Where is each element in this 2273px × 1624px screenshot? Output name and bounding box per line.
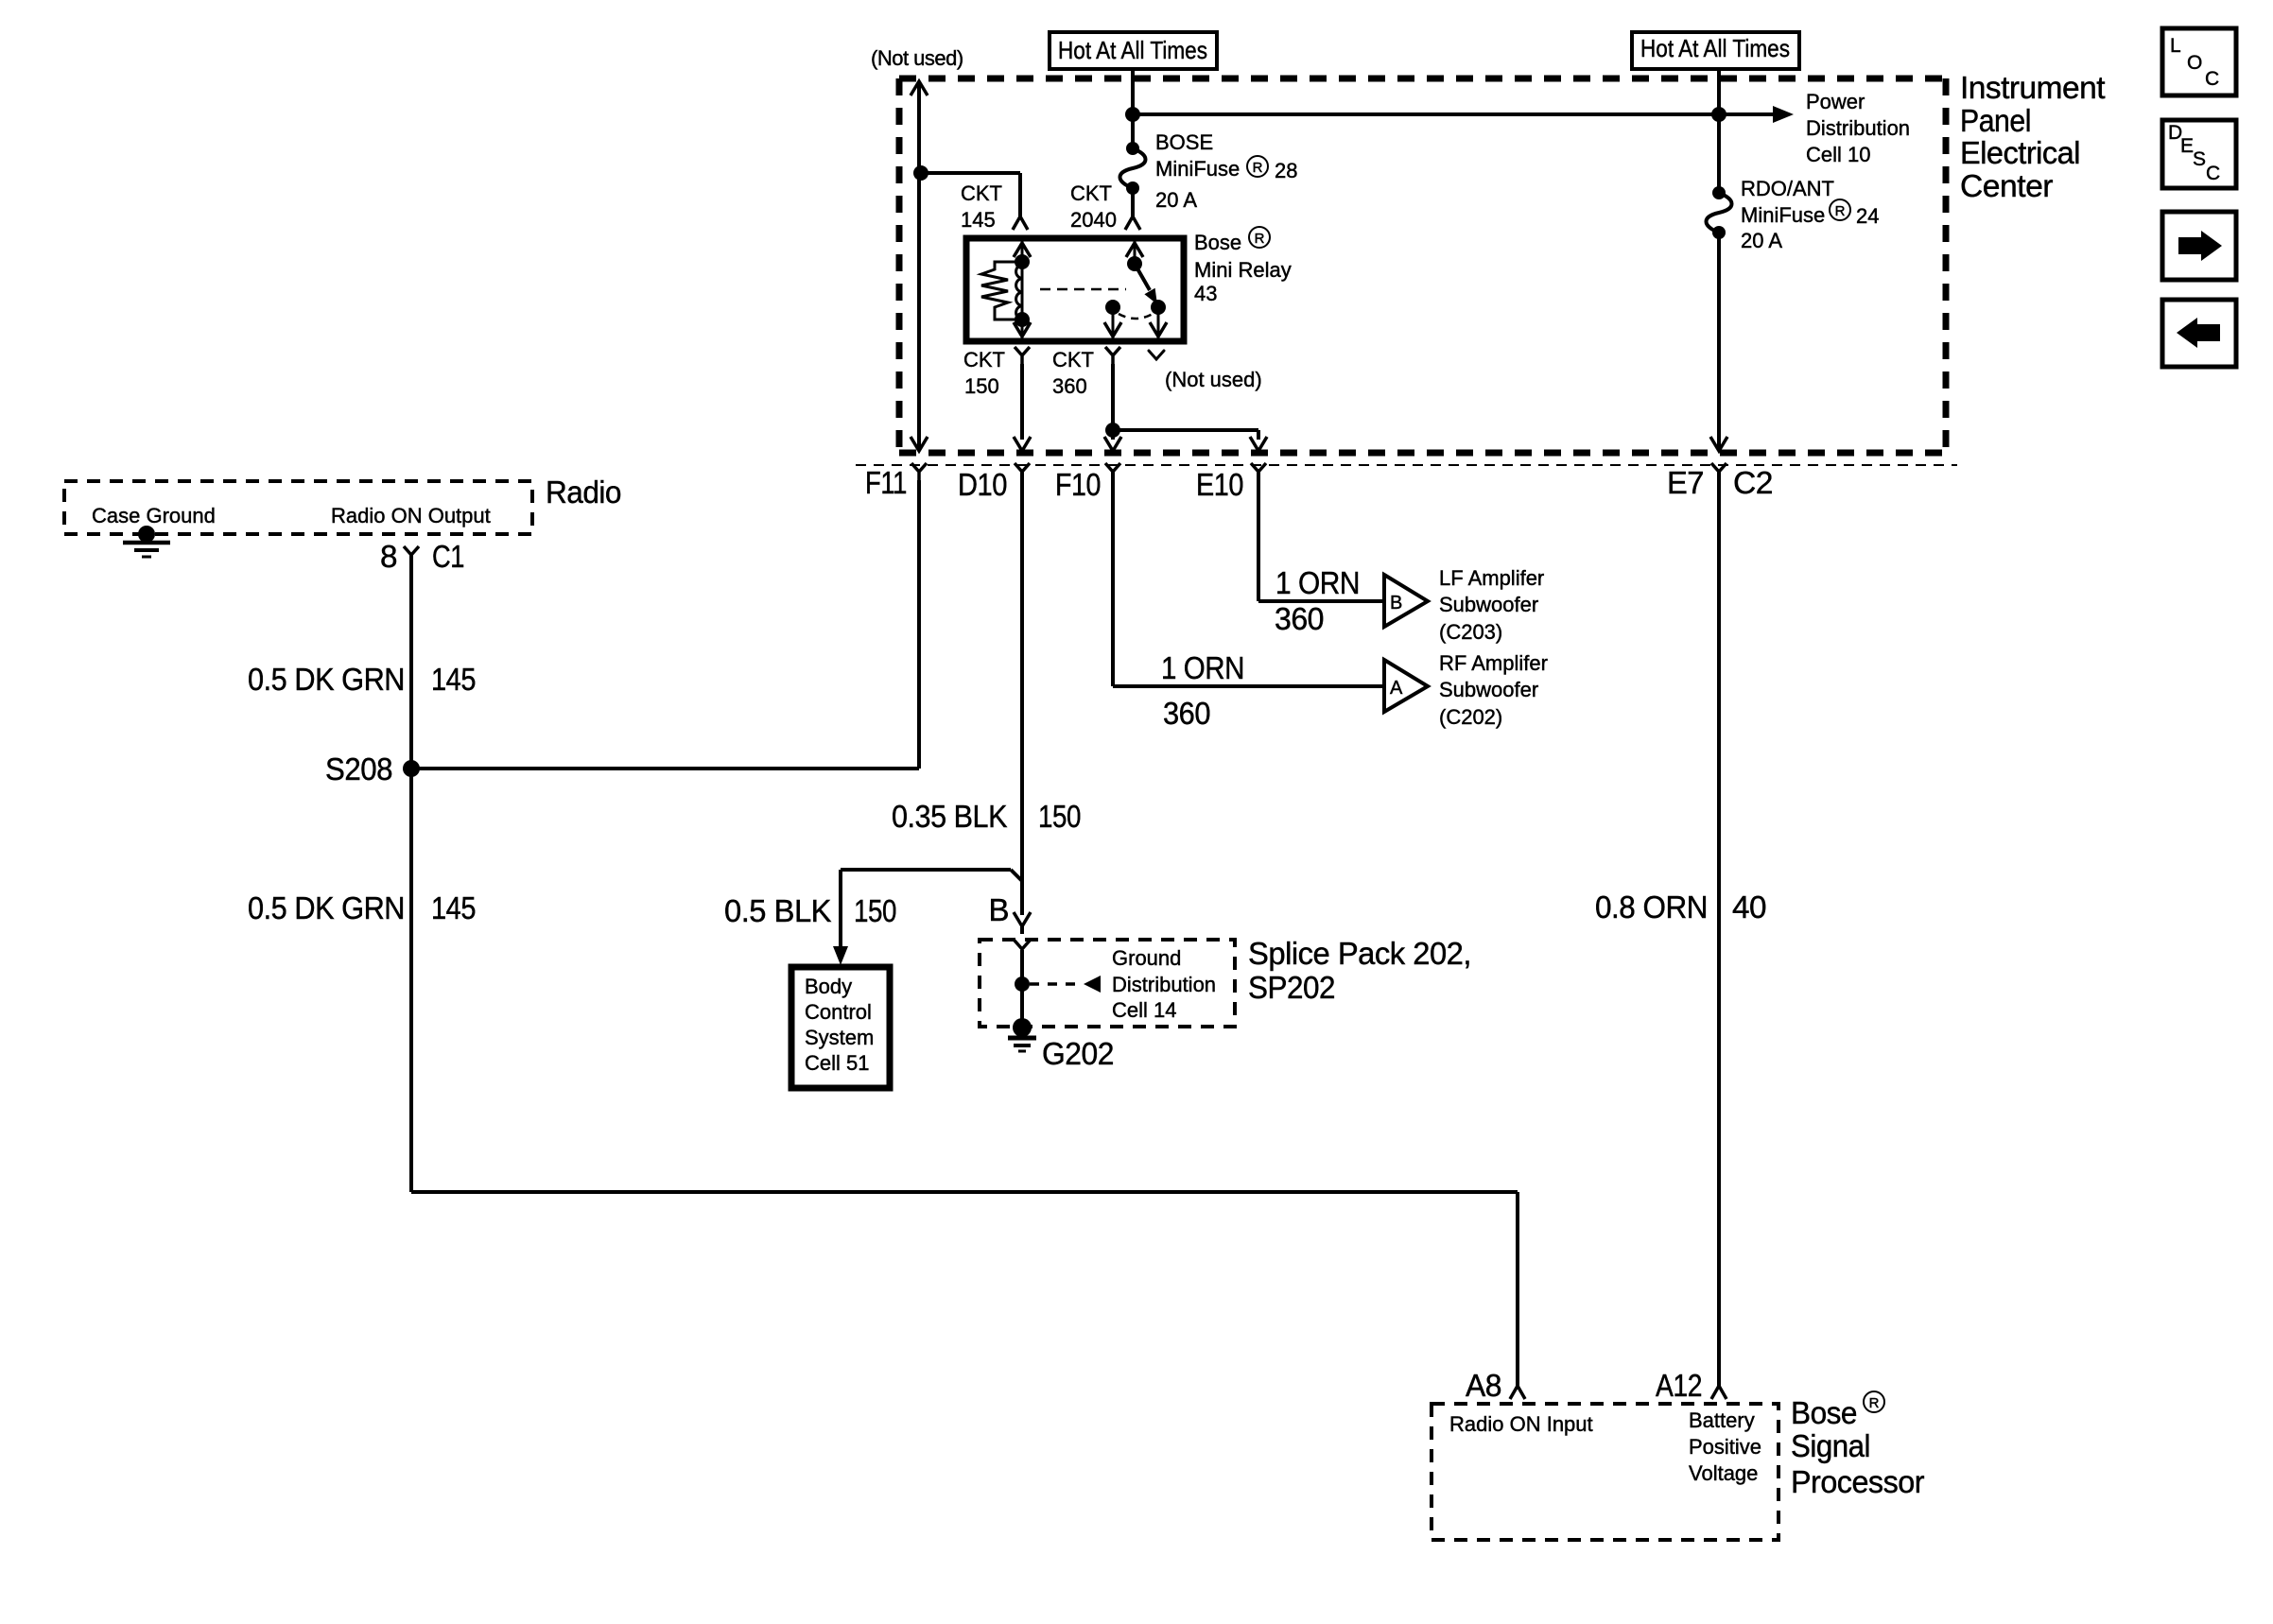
svg-text:R: R bbox=[1869, 1395, 1880, 1411]
svg-text:Bose: Bose bbox=[1194, 231, 1241, 254]
svg-text:CKT: CKT bbox=[1070, 181, 1112, 205]
svg-text:0.35 BLK: 0.35 BLK bbox=[892, 799, 1007, 834]
svg-text:S208: S208 bbox=[325, 752, 392, 786]
svg-text:B: B bbox=[988, 892, 1009, 927]
svg-text:RF Amplifer: RF Amplifer bbox=[1439, 651, 1548, 675]
svg-text:Instrument: Instrument bbox=[1960, 70, 2105, 105]
svg-text:Battery: Battery bbox=[1689, 1408, 1755, 1432]
svg-text:Cell 14: Cell 14 bbox=[1112, 998, 1176, 1022]
svg-text:1 ORN: 1 ORN bbox=[1161, 650, 1244, 685]
svg-text:System: System bbox=[805, 1026, 874, 1049]
svg-text:D10: D10 bbox=[958, 467, 1007, 502]
svg-text:145: 145 bbox=[431, 662, 476, 697]
svg-text:0.5 DK GRN: 0.5 DK GRN bbox=[248, 662, 405, 697]
svg-text:F10: F10 bbox=[1055, 467, 1101, 502]
svg-text:E7: E7 bbox=[1667, 465, 1704, 500]
svg-text:28: 28 bbox=[1275, 159, 1297, 182]
svg-text:20 A: 20 A bbox=[1741, 229, 1782, 252]
svg-text:G202: G202 bbox=[1042, 1036, 1114, 1071]
svg-text:(Not used): (Not used) bbox=[871, 46, 963, 70]
svg-text:Splice Pack 202,: Splice Pack 202, bbox=[1248, 936, 1471, 971]
svg-text:145: 145 bbox=[961, 208, 996, 232]
svg-text:Ground: Ground bbox=[1112, 946, 1181, 970]
svg-text:360: 360 bbox=[1163, 696, 1210, 731]
svg-text:Hot At All Times: Hot At All Times bbox=[1058, 36, 1207, 64]
svg-text:Cell 10: Cell 10 bbox=[1806, 143, 1870, 166]
svg-text:CKT: CKT bbox=[963, 348, 1005, 371]
svg-text:Panel: Panel bbox=[1960, 103, 2031, 138]
svg-text:43: 43 bbox=[1194, 282, 1217, 305]
svg-text:Power: Power bbox=[1806, 90, 1865, 113]
svg-text:0.5 BLK: 0.5 BLK bbox=[724, 893, 831, 928]
svg-text:BOSE: BOSE bbox=[1155, 130, 1213, 154]
svg-text:SP202: SP202 bbox=[1248, 970, 1335, 1005]
svg-text:R: R bbox=[1835, 203, 1846, 219]
svg-text:O: O bbox=[2187, 52, 2202, 74]
svg-text:20 A: 20 A bbox=[1155, 188, 1197, 212]
svg-text:C: C bbox=[2206, 163, 2220, 184]
svg-text:Mini Relay: Mini Relay bbox=[1194, 258, 1292, 282]
svg-text:CKT: CKT bbox=[1052, 348, 1094, 371]
svg-text:Signal: Signal bbox=[1791, 1428, 1870, 1463]
svg-text:S: S bbox=[2193, 148, 2206, 170]
svg-text:40: 40 bbox=[1732, 890, 1766, 924]
svg-text:MiniFuse: MiniFuse bbox=[1155, 157, 1240, 181]
svg-text:Hot At All Times: Hot At All Times bbox=[1640, 34, 1790, 62]
svg-text:145: 145 bbox=[431, 890, 476, 925]
svg-text:0.8 ORN: 0.8 ORN bbox=[1595, 890, 1708, 924]
svg-text:(Not used): (Not used) bbox=[1165, 368, 1262, 391]
svg-text:1 ORN: 1 ORN bbox=[1275, 565, 1360, 600]
svg-text:L: L bbox=[2170, 35, 2181, 57]
svg-text:360: 360 bbox=[1275, 601, 1324, 636]
svg-text:CKT: CKT bbox=[961, 181, 1002, 205]
svg-text:Bose: Bose bbox=[1791, 1395, 1857, 1430]
svg-text:LF Amplifer: LF Amplifer bbox=[1439, 566, 1544, 590]
svg-text:Body: Body bbox=[805, 975, 852, 998]
svg-text:A: A bbox=[1390, 678, 1403, 699]
svg-text:(C202): (C202) bbox=[1439, 705, 1502, 729]
svg-text:Subwoofer: Subwoofer bbox=[1439, 678, 1538, 701]
svg-text:24: 24 bbox=[1856, 204, 1879, 228]
svg-text:Radio: Radio bbox=[546, 475, 621, 510]
svg-text:Case Ground: Case Ground bbox=[92, 504, 216, 527]
svg-text:150: 150 bbox=[1038, 799, 1081, 834]
svg-text:150: 150 bbox=[964, 374, 999, 398]
svg-text:150: 150 bbox=[854, 893, 896, 928]
svg-text:Processor: Processor bbox=[1791, 1464, 1924, 1499]
svg-text:360: 360 bbox=[1052, 374, 1087, 398]
svg-text:2040: 2040 bbox=[1070, 208, 1117, 232]
svg-text:C1: C1 bbox=[432, 539, 464, 574]
svg-text:Radio ON Output: Radio ON Output bbox=[331, 504, 491, 527]
svg-text:A8: A8 bbox=[1466, 1368, 1501, 1403]
svg-text:Distribution: Distribution bbox=[1112, 973, 1216, 996]
svg-text:C2: C2 bbox=[1733, 465, 1773, 500]
svg-text:Radio ON Input: Radio ON Input bbox=[1449, 1412, 1593, 1436]
svg-text:(C203): (C203) bbox=[1439, 620, 1502, 644]
svg-text:8: 8 bbox=[380, 539, 397, 574]
svg-text:Positive: Positive bbox=[1689, 1435, 1761, 1459]
svg-text:Cell 51: Cell 51 bbox=[805, 1051, 869, 1075]
svg-text:E10: E10 bbox=[1196, 467, 1243, 502]
svg-text:F11: F11 bbox=[865, 465, 907, 500]
svg-text:R: R bbox=[1253, 160, 1263, 176]
svg-text:Subwoofer: Subwoofer bbox=[1439, 593, 1538, 616]
svg-text:Control: Control bbox=[805, 1000, 872, 1024]
svg-text:E: E bbox=[2180, 135, 2194, 157]
svg-text:0.5 DK GRN: 0.5 DK GRN bbox=[248, 890, 405, 925]
svg-text:A12: A12 bbox=[1656, 1368, 1702, 1403]
svg-text:R: R bbox=[1255, 231, 1265, 247]
svg-text:B: B bbox=[1390, 593, 1402, 613]
svg-text:Voltage: Voltage bbox=[1689, 1461, 1758, 1485]
svg-text:Electrical: Electrical bbox=[1960, 135, 2080, 170]
svg-text:Distribution: Distribution bbox=[1806, 116, 1910, 140]
svg-text:MiniFuse: MiniFuse bbox=[1741, 203, 1825, 227]
svg-text:RDO/ANT: RDO/ANT bbox=[1741, 177, 1834, 200]
svg-text:C: C bbox=[2205, 68, 2219, 90]
svg-text:Center: Center bbox=[1960, 168, 2054, 203]
